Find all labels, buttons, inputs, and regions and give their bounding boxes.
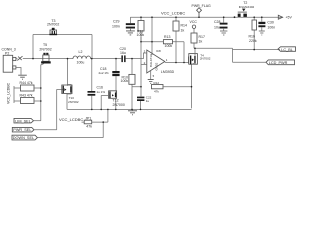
- svg-text:100k: 100k: [165, 44, 173, 48]
- svg-text:C28: C28: [214, 20, 220, 24]
- svg-text:VCC_LCDBC: VCC_LCDBC: [59, 117, 83, 122]
- svg-text:2N7000: 2N7000: [113, 103, 125, 107]
- svg-text:PWR_FLAG: PWR_FLAG: [192, 4, 212, 8]
- svg-text:IC8: IC8: [156, 49, 161, 53]
- svg-text:220k: 220k: [249, 39, 257, 43]
- svg-text:R13: R13: [164, 35, 170, 39]
- svg-text:LIM_SEL: LIM_SEL: [15, 119, 31, 123]
- svg-text:10u: 10u: [214, 25, 220, 29]
- svg-text:LM393D: LM393D: [161, 70, 175, 74]
- svg-text:C29: C29: [113, 20, 119, 24]
- svg-text:2N7002: 2N7002: [68, 100, 79, 104]
- svg-text:2N7002: 2N7002: [200, 57, 211, 61]
- svg-text:VCC_LCDBC: VCC_LCDBC: [161, 11, 185, 16]
- svg-text:100n: 100n: [112, 25, 120, 29]
- svg-text:1k: 1k: [199, 40, 203, 44]
- svg-text:2N7002: 2N7002: [47, 22, 59, 26]
- svg-text:LC_BL: LC_BL: [281, 48, 293, 52]
- svg-text:VCC: VCC: [190, 20, 198, 24]
- svg-text:VCC_LCDBC: VCC_LCDBC: [7, 82, 11, 104]
- svg-text:1k: 1k: [181, 29, 185, 33]
- svg-text:2N7002: 2N7002: [39, 47, 51, 51]
- svg-text:C16: C16: [97, 86, 103, 90]
- svg-text:100n: 100n: [267, 25, 275, 29]
- svg-text:16u: 16u: [120, 51, 126, 55]
- svg-text:R14: R14: [181, 24, 187, 28]
- svg-text:47k: 47k: [154, 90, 159, 94]
- svg-text:LCD_PWR: LCD_PWR: [269, 61, 288, 65]
- svg-text:GND2: GND2: [155, 62, 159, 70]
- svg-text:L2: L2: [79, 50, 83, 54]
- svg-text:R16: R16: [249, 34, 255, 38]
- svg-text:JP1: JP1: [85, 116, 91, 120]
- svg-text:DOWN_SEL: DOWN_SEL: [13, 136, 34, 140]
- svg-text:100k: 100k: [121, 79, 129, 83]
- svg-text:R17: R17: [199, 35, 205, 39]
- svg-text:2u2 1%: 2u2 1%: [99, 71, 110, 75]
- svg-text:1u: 1u: [146, 99, 150, 103]
- svg-text:C30: C30: [267, 21, 273, 25]
- svg-text:T12: T12: [113, 99, 119, 103]
- svg-text:C18: C18: [100, 67, 106, 71]
- svg-text:BAL6719: BAL6719: [149, 54, 153, 67]
- svg-text:+5V: +5V: [286, 16, 293, 20]
- svg-text:PWR_SEL: PWR_SEL: [13, 128, 31, 132]
- svg-text:100k: 100k: [137, 33, 145, 37]
- svg-text:R43 47k: R43 47k: [20, 94, 33, 98]
- svg-text:1u 1%: 1u 1%: [97, 90, 106, 94]
- svg-text:47k: 47k: [86, 124, 92, 128]
- svg-text:100u: 100u: [77, 61, 85, 65]
- svg-text:IRLML6402: IRLML6402: [239, 5, 255, 9]
- svg-text:R44 47k: R44 47k: [20, 81, 33, 85]
